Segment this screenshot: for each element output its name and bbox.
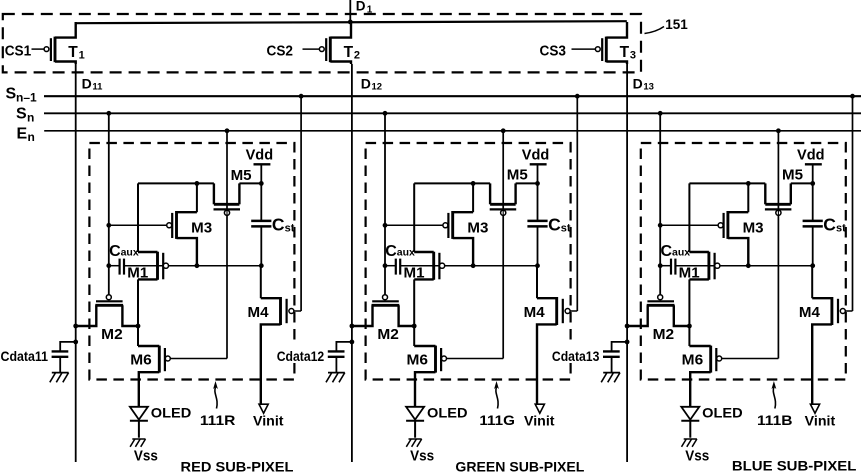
capacitor Caux (green sub-pixel) [396,259,400,275]
transistor T3 (select switch) [572,22,628,64]
svg-text:M2: M2 [377,327,399,343]
capacitor Cdata12 (green sub-pixel) [328,342,352,372]
junction node A at Cst bottom [810,263,815,268]
junction M2 left lead on data column [350,324,355,329]
junction Caux tap [658,263,663,268]
svg-text:st: st [561,222,571,234]
svg-text:1: 1 [367,4,373,15]
label Caux [661,243,691,260]
label Caux [109,243,139,260]
capacitor Cdata11 (red sub-pixel) [52,342,76,372]
svg-text:M6: M6 [407,352,429,368]
svg-text:Vdd: Vdd [246,147,274,163]
label Cst [272,214,295,234]
transistor M4 (green sub-pixel) [537,266,577,404]
ground Vss (blue sub-pixel) [682,439,697,447]
svg-text:D: D [82,76,92,92]
svg-text:M1: M1 [679,265,700,281]
junction En column [501,128,506,133]
power Vdd terminal (green sub-pixel) [530,164,547,183]
row line Sn [44,112,861,114]
transistor M3 (green sub-pixel) [385,211,473,266]
junction Sn-1 column [299,94,304,99]
junction En column [776,128,781,133]
M4 gate column from Sn-1 (red sub-pixel) [300,96,302,311]
junction M2 left lead on data column [625,324,630,329]
label D1 [356,0,373,15]
svg-text:Vdd: Vdd [522,147,550,163]
label Sn [16,106,34,125]
label D12 [361,76,382,93]
M1 drain column wire [137,183,139,252]
svg-text:M3: M3 [743,221,764,237]
svg-text:aux: aux [121,247,139,259]
svg-text:T: T [344,44,354,61]
demux block 151 dashed box [3,14,641,72]
svg-text:CS3: CS3 [540,43,567,59]
capacitor Cst (red sub-pixel) [251,183,271,265]
svg-text:2: 2 [354,50,360,62]
svg-text:11: 11 [92,82,103,93]
label Cst [823,214,846,234]
transistor M1 (blue sub-pixel) [689,252,720,326]
emission column from En (green sub-pixel) [502,131,504,359]
svg-text:aux: aux [672,247,690,259]
emission column from En (blue sub-pixel) [777,131,779,359]
node A wire (M1 gate / M3 source / Cst bottom / M4 drain, green sub-pixel) [385,265,396,267]
svg-text:n–1: n–1 [16,90,37,104]
svg-text:S: S [6,86,17,103]
ground of Cdata12 [326,373,345,383]
svg-text:M4: M4 [248,305,269,321]
M4 gate column from Sn-1 (green sub-pixel) [576,96,578,311]
transistor T2 (select switch) [303,22,352,64]
M3 drain riser wire [472,183,474,212]
svg-text:C: C [823,214,836,234]
junction node A at M3 source [195,263,200,268]
power Vdd terminal (blue sub-pixel) [805,164,822,183]
svg-text:Cdata12: Cdata12 [277,349,325,364]
junction node B at M3 drain riser [746,181,751,186]
junction M2 right lead / M1 source / M6 drain [412,324,417,329]
svg-text:T: T [68,44,78,61]
transistor M2 (green sub-pixel) [352,295,414,326]
svg-text:st: st [285,222,295,234]
junction Caux tap [383,263,388,268]
svg-text:M6: M6 [682,352,704,368]
diode OLED (blue sub-pixel) [681,407,699,438]
capacitor Cst (blue sub-pixel) [803,183,823,265]
svg-text:S: S [16,106,27,123]
transistor M2 (blue sub-pixel) [627,295,689,326]
M1 drain column wire [688,183,690,252]
svg-text:OLED: OLED [427,405,468,421]
ground of Cdata11 [50,373,69,383]
junction node A at M3 source [746,263,751,268]
svg-text:M2: M2 [653,327,675,343]
node B wire (M1 drain / M3 drain / M5 source, blue sub-pixel) [689,182,765,184]
svg-text:1: 1 [79,50,85,62]
label T1 [68,44,84,62]
svg-text:Cdata11: Cdata11 [1,349,49,364]
emission column from En (red sub-pixel) [226,131,228,359]
terminal Vinit (blue sub-pixel) [810,404,819,413]
junction node A at M3 source [471,263,476,268]
svg-text:13: 13 [643,82,654,93]
label En [17,125,35,144]
transistor M6 (green sub-pixel) [414,326,503,407]
diode OLED (green sub-pixel) [406,407,424,438]
transistor M1 (red sub-pixel) [138,252,168,326]
transistor M3 (red sub-pixel) [109,211,197,266]
ground Vss (red sub-pixel) [130,439,145,447]
label T3 [620,44,636,62]
svg-text:Vss: Vss [134,448,158,464]
capacitor Cst (green sub-pixel) [527,183,547,265]
junction Caux tap [106,263,111,268]
junction node A at Cst bottom [535,263,540,268]
pointer arrow 111R [213,381,218,409]
svg-text:n: n [27,110,34,124]
node D1 vertical wire [349,0,351,23]
label Caux [385,243,415,260]
scan column from Sn (red sub-pixel) [108,113,110,295]
svg-text:OLED: OLED [151,405,192,421]
junction Sn column [658,111,663,116]
terminal Vinit (green sub-pixel) [535,404,544,413]
svg-text:D: D [361,76,371,92]
M4 gate column from Sn-1 (blue sub-pixel) [852,96,854,311]
svg-text:C: C [661,243,673,260]
junction Cdata tap on data column [73,340,78,345]
junction node B at Vdd stem [259,181,264,186]
transistor M4 (red sub-pixel) [261,266,301,404]
label D11 [82,76,104,93]
transistor M5 (red sub-pixel) [214,183,241,215]
transistor M6 (blue sub-pixel) [689,326,778,407]
svg-text:M5: M5 [231,168,252,184]
junction node A at Cst bottom [259,263,264,268]
svg-text:3: 3 [630,50,636,62]
capacitor Caux (blue sub-pixel) [671,259,675,275]
scan column from Sn (green sub-pixel) [384,113,386,295]
M3 drain riser wire [196,183,198,212]
transistor M2 (red sub-pixel) [76,295,138,326]
data column D13 wire (blue sub-pixel) [626,64,628,462]
label 151 [645,16,689,34]
capacitor Cdata13 (blue sub-pixel) [603,342,627,372]
pointer arrow 111B [772,381,777,409]
svg-text:M1: M1 [404,265,425,281]
junction M2 right lead / M1 source / M6 drain [687,324,692,329]
svg-text:C: C [548,214,561,234]
svg-text:M5: M5 [507,167,528,183]
junction node B at Vdd stem [810,181,815,186]
transistor M5 (green sub-pixel) [490,183,517,215]
data column D12 wire (green sub-pixel) [351,64,353,462]
junction M2 right lead / M1 source / M6 drain [136,324,141,329]
dashed box red sub-pixel (111R) [89,143,294,380]
transistor M5 (blue sub-pixel) [765,183,792,215]
svg-text:M4: M4 [524,305,545,321]
junction M3 gate tap [658,223,663,228]
junction Cdata tap on data column [350,340,355,345]
ground Vss (green sub-pixel) [406,439,421,447]
label Sn-1 [6,86,38,105]
svg-text:M2: M2 [101,327,123,343]
svg-text:151: 151 [665,16,688,32]
junction Sn column [383,111,388,116]
label T2 [344,44,360,62]
svg-text:st: st [836,222,846,234]
svg-text:C: C [109,243,121,260]
svg-text:Vinit: Vinit [805,412,836,428]
transistor T1 (select switch) [32,22,76,64]
capacitor Caux (red sub-pixel) [120,259,124,275]
svg-text:111B: 111B [757,412,793,428]
svg-text:n: n [28,130,35,144]
dashed box green sub-pixel (111G) [366,143,571,380]
svg-text:aux: aux [397,247,415,259]
svg-text:M3: M3 [191,221,212,237]
node B wire (M1 drain / M3 drain / M5 source, green sub-pixel) [414,182,490,184]
svg-text:Vss: Vss [410,448,434,464]
label Cdata12 [275,345,327,360]
svg-text:C: C [272,214,285,234]
svg-text:CS1: CS1 [5,43,32,59]
junction of D1 and bus [348,20,353,25]
svg-text:111R: 111R [200,412,236,428]
svg-text:M5: M5 [782,167,803,183]
power Vdd terminal (red sub-pixel) [254,164,271,183]
svg-text:T: T [620,44,630,61]
svg-text:M4: M4 [799,305,820,321]
transistor M6 (red sub-pixel) [138,326,227,407]
svg-text:111G: 111G [479,412,515,428]
junction Sn column [106,111,111,116]
svg-text:RED SUB-PIXEL: RED SUB-PIXEL [181,459,294,474]
svg-text:M6: M6 [130,352,152,368]
data bus wire (drains of T1-T3) [76,21,627,23]
junction M3 gate tap [383,223,388,228]
ground of Cdata13 [601,373,620,383]
dashed box blue sub-pixel (111B) [641,143,846,380]
svg-text:M3: M3 [467,221,488,237]
svg-text:BLUE SUB-PIXEL: BLUE SUB-PIXEL [732,458,857,474]
M3 drain riser wire [747,183,749,212]
svg-text:OLED: OLED [702,405,743,421]
svg-text:D: D [633,76,643,92]
svg-text:Vinit: Vinit [524,412,555,428]
transistor M1 (green sub-pixel) [414,252,445,326]
row line Sn-1 [44,95,861,97]
svg-text:12: 12 [372,82,383,93]
junction node B at M3 drain riser [195,181,200,186]
svg-text:Vdd: Vdd [797,147,825,163]
svg-text:C: C [385,243,397,260]
label Cdata13 [550,345,602,360]
scan column from Sn (blue sub-pixel) [659,113,661,295]
svg-text:M1: M1 [127,265,148,281]
svg-text:E: E [17,125,28,142]
node A wire (M1 gate / M3 source / Cst bottom / M4 drain, blue sub-pixel) [660,265,671,267]
svg-text:GREEN SUB-PIXEL: GREEN SUB-PIXEL [455,459,584,474]
junction M3 gate tap [106,223,111,228]
terminal Vinit (red sub-pixel) [259,404,268,413]
junction En column [225,128,230,133]
label D13 [633,76,654,93]
svg-text:D: D [356,0,366,13]
junction node B at M3 drain riser [471,181,476,186]
svg-text:Vss: Vss [685,448,709,464]
junction Sn-1 column [850,94,855,99]
diode OLED (red sub-pixel) [130,407,148,438]
junction Sn-1 column [575,94,580,99]
M1 drain column wire [413,183,415,252]
transistor M3 (blue sub-pixel) [660,211,748,266]
data column D11 wire (red sub-pixel) [75,64,77,462]
transistor M4 (blue sub-pixel) [812,266,852,404]
junction node B at Vdd stem [535,181,540,186]
svg-text:Vinit: Vinit [253,412,284,428]
junction M2 left lead on data column [73,324,78,329]
row line En [44,130,861,132]
node B wire (M1 drain / M3 drain / M5 source, red sub-pixel) [138,182,214,184]
svg-text:Cdata13: Cdata13 [552,349,600,364]
node A wire (M1 gate / M3 source / Cst bottom / M4 drain, red sub-pixel) [109,265,120,267]
svg-text:CS2: CS2 [267,43,294,59]
pointer arrow 111G [494,381,499,409]
junction Cdata tap on data column [625,340,630,345]
label Cst [548,214,571,234]
